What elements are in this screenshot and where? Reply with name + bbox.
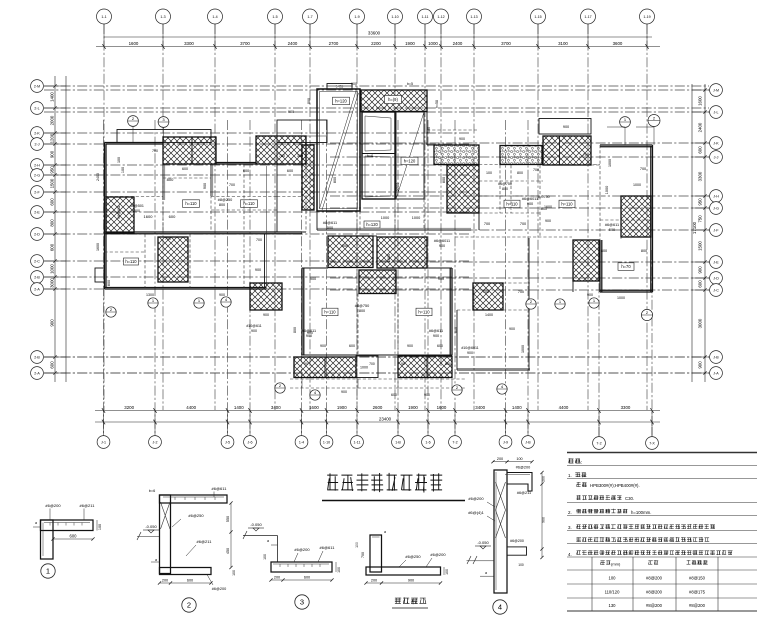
svg-text:800: 800 [307,98,311,104]
svg-text:100: 100 [445,569,449,575]
svg-text:a: a [267,539,269,543]
right unit outline [600,144,653,146]
svg-text:900: 900 [255,268,261,272]
svg-text:3000: 3000 [50,278,55,288]
svg-text:100: 100 [518,563,524,567]
horizontal axis grid lines [44,86,709,373]
svg-text:1000: 1000 [521,345,525,353]
svg-text:900: 900 [467,351,473,355]
svg-text:1-17: 1-17 [584,15,591,19]
svg-text:900: 900 [459,137,465,141]
svg-text:#6@250: #6@250 [188,513,204,518]
svg-text:800: 800 [293,327,297,333]
stair shaft [317,89,360,211]
svg-text:100: 100 [121,167,125,173]
svg-text:900: 900 [251,329,257,333]
svg-text:#6@750: #6@750 [355,304,369,308]
svg-text:900: 900 [698,266,703,274]
svg-text:#6@200: #6@200 [212,587,226,591]
svg-text:J-L: J-L [714,110,719,114]
svg-text:100: 100 [232,570,236,576]
svg-text:750: 750 [698,215,703,223]
left unit interior walls [162,144,164,232]
right unit section circles [620,117,631,128]
svg-text:J-K: J-K [713,141,719,145]
svg-text:700: 700 [583,153,589,157]
svg-text:h=120: h=120 [335,99,347,104]
svg-text:2: 2 [187,601,191,610]
svg-text:550: 550 [226,516,230,522]
hatch C core top [361,90,427,112]
svg-text:#8@250: #8@250 [218,198,232,202]
svg-text:2-B: 2-B [34,355,40,359]
svg-text:900: 900 [542,517,546,523]
svg-text:23400: 23400 [379,416,392,421]
svg-text:2-G: 2-G [34,173,40,177]
svg-text:1: 1 [46,567,50,576]
svg-text:#6@250: #6@250 [405,554,421,559]
svg-text:2400: 2400 [453,41,463,46]
svg-text:#8@175: #8@175 [689,590,706,595]
svg-text:700: 700 [256,238,262,242]
svg-text:J-H: J-H [713,194,719,198]
svg-text:600: 600 [187,579,193,583]
svg-text:300: 300 [297,154,303,158]
svg-text:900: 900 [509,327,515,331]
svg-text:1000: 1000 [50,264,55,274]
svg-text:200: 200 [162,579,168,583]
svg-text:3000: 3000 [698,318,703,328]
svg-text:#6@200: #6@200 [516,466,530,470]
svg-text:#6@611: #6@611 [302,329,316,333]
svg-text:100: 100 [486,171,492,175]
svg-text:7-2: 7-2 [452,440,457,444]
svg-text:3300: 3300 [621,405,631,410]
svg-text:700: 700 [229,183,235,187]
svg-text:110/120: 110/120 [605,590,620,595]
svg-text:2600: 2600 [373,405,383,410]
svg-text:900: 900 [310,277,316,281]
svg-text:33600: 33600 [368,31,381,36]
svg-text:600: 600 [391,393,397,397]
svg-text:950: 950 [50,166,55,174]
svg-text:HPB300#(#);HPB400#(#).: HPB300#(#);HPB400#(#). [590,483,640,488]
svg-text:900: 900 [587,293,593,297]
svg-text:100: 100 [609,576,617,581]
svg-text:J-6: J-6 [248,440,253,444]
svg-text:#6@211: #6@211 [517,491,531,495]
svg-text:h=58: h=58 [435,100,439,108]
svg-text:600: 600 [304,576,310,580]
svg-text:2-C: 2-C [34,259,40,263]
hatch S [250,283,282,310]
svg-text:700: 700 [279,154,285,158]
svg-text:1600: 1600 [309,405,319,410]
svg-text:2000: 2000 [50,115,55,125]
hatch B [256,136,306,164]
svg-text:500: 500 [134,209,140,213]
porch section circles [128,116,139,127]
svg-text:800: 800 [454,327,458,333]
svg-text:h=110: h=110 [185,201,197,206]
svg-text:600: 600 [50,361,55,369]
svg-text:100: 100 [117,157,121,163]
svg-text:100: 100 [337,567,341,573]
svg-text:900: 900 [288,110,294,114]
svg-text:1000: 1000 [617,296,625,300]
svg-text:h=120: h=120 [366,222,378,227]
svg-text:1000: 1000 [412,216,420,220]
svg-text:600: 600 [698,146,703,154]
svg-text:3200: 3200 [124,405,134,410]
detail 1 bubble [41,564,55,578]
svg-text:2400: 2400 [96,173,100,181]
svg-text:1600: 1600 [96,243,100,251]
svg-text:3.: 3. [568,525,572,530]
svg-text:800: 800 [219,203,225,207]
svg-text:1-11: 1-11 [354,440,361,444]
svg-text:#6@611: #6@611 [117,205,121,218]
svg-text:700: 700 [533,168,539,172]
corridor dashes [479,164,600,166]
svg-text:900: 900 [203,183,207,189]
svg-text:800: 800 [50,219,55,227]
svg-text:a: a [35,521,37,525]
svg-text:700: 700 [369,362,375,366]
top axis circles [97,9,112,24]
svg-text:800: 800 [107,280,111,286]
svg-text:#6@200: #6@200 [468,496,484,501]
svg-text:#6@611: #6@611 [605,223,619,227]
svg-text:#8@200: #8@200 [646,576,663,581]
right shaft [396,112,424,199]
svg-text:1-13: 1-13 [470,15,477,19]
svg-text:200: 200 [497,457,503,461]
svg-text:#6@611: #6@611 [212,486,228,491]
left axis circles [31,80,44,93]
svg-text:900: 900 [50,319,55,327]
svg-text:800: 800 [601,249,607,253]
svg-text:900: 900 [433,334,439,338]
svg-text:1-B: 1-B [395,440,401,444]
svg-text:1-7: 1-7 [307,15,312,19]
svg-text:J-B: J-B [713,355,719,359]
svg-text:4400: 4400 [186,405,196,410]
svg-text:800: 800 [502,187,508,191]
svg-text:3: 3 [300,598,304,607]
svg-text:h=110: h=110 [125,259,137,264]
svg-text:900: 900 [563,125,569,129]
svg-text:900: 900 [439,244,445,248]
svg-text:600: 600 [182,167,188,171]
svg-text:J-D: J-D [713,276,719,280]
svg-text:1000: 1000 [605,186,609,194]
labels left unit [183,200,200,208]
svg-text:900: 900 [320,344,326,348]
svg-text:2-L: 2-L [34,106,39,110]
svg-text:1-9: 1-9 [354,15,359,19]
svg-text:b=2B: b=2B [336,85,344,89]
svg-text:J-J: J-J [714,155,719,159]
hatch O [473,283,503,310]
svg-text::: : [581,460,582,466]
svg-text:1400: 1400 [234,405,244,410]
svg-text:500: 500 [609,228,615,232]
hatch G [106,197,134,233]
hatch A [163,137,216,164]
svg-text:J-1: J-1 [101,440,106,444]
svg-text:1-4: 1-4 [299,440,304,444]
svg-text:h=110: h=110 [324,310,336,315]
svg-text:2-K: 2-K [34,131,40,135]
hatch Q [573,240,599,281]
svg-text:1900: 1900 [337,405,347,410]
svg-text:200: 200 [542,476,546,482]
svg-text:h=120: h=120 [404,159,416,164]
svg-text:#6@750: #6@750 [498,182,512,186]
svg-text:#8@200: #8@200 [646,603,663,608]
right balcony [539,119,591,135]
svg-text:700: 700 [152,149,158,153]
svg-text:2-A: 2-A [34,371,40,375]
top dimension lines [96,24,660,49]
svg-text:7-X: 7-X [649,441,655,445]
svg-text:2-F: 2-F [34,190,40,194]
svg-text:800: 800 [517,171,523,175]
svg-text:800: 800 [442,177,446,183]
svg-text:1-5: 1-5 [272,15,277,19]
svg-text:#6@611: #6@611 [429,329,443,333]
svg-text:J-F: J-F [713,228,719,232]
svg-text:2-D: 2-D [34,232,40,236]
svg-text:2-M: 2-M [34,84,40,88]
svg-text:#10@611: #10@611 [246,324,261,328]
svg-text:1000: 1000 [381,216,389,220]
bottom hatch strips M,N [294,357,356,378]
svg-text:700: 700 [165,237,171,241]
svg-text:800: 800 [641,249,647,253]
svg-text:1900: 1900 [405,41,415,46]
svg-text:4: 4 [498,603,502,612]
svg-text:1-12: 1-12 [437,15,444,19]
svg-text:100: 100 [355,542,359,548]
svg-text:200: 200 [371,579,377,583]
right lower rooms [456,310,458,370]
svg-text:130: 130 [609,603,617,608]
pebble strip 1 [434,145,479,165]
svg-text:900: 900 [545,219,551,223]
svg-text:1600: 1600 [698,96,703,106]
svg-text:2400: 2400 [698,122,703,132]
svg-text:h=100mm.: h=100mm. [631,510,651,515]
svg-text:100: 100 [263,554,267,560]
svg-text:(mm): (mm) [611,562,621,567]
svg-text:h=(9): h=(9) [388,97,398,102]
core bottom band [316,211,318,230]
hatch P [543,136,591,165]
svg-text:1200: 1200 [50,133,55,143]
svg-text:C30.: C30. [625,496,634,501]
svg-text:J-9: J-9 [503,440,508,444]
svg-text:h=110: h=110 [506,202,518,207]
right axis circles [710,84,723,97]
svg-text:-0.050: -0.050 [145,524,157,529]
svg-text:2400: 2400 [288,41,298,46]
svg-text:1-19: 1-19 [643,15,650,19]
svg-text:100: 100 [98,524,102,530]
svg-text:#6@200: #6@200 [45,503,61,508]
svg-text:h=110: h=110 [243,201,255,206]
svg-text:2700: 2700 [396,183,400,191]
svg-text:h=110: h=110 [418,310,430,315]
svg-text:2-E: 2-E [34,210,40,214]
svg-text:1000: 1000 [608,159,612,167]
svg-text:-0.050: -0.050 [477,540,489,545]
svg-text:J-M: J-M [713,88,719,92]
svg-text:90: 90 [401,362,405,366]
svg-text:3600: 3600 [613,41,623,46]
svg-text:b=6: b=6 [149,489,155,493]
svg-text:900: 900 [263,313,269,317]
right dimension lines [692,84,710,382]
svg-text:J-E: J-E [713,260,719,264]
svg-text:600: 600 [50,198,55,206]
svg-text:700: 700 [361,552,365,558]
svg-text:#10@6011: #10@6011 [461,346,478,350]
svg-text:3700: 3700 [501,41,511,46]
svg-text:#8@150: #8@150 [689,576,706,581]
svg-text:700: 700 [483,290,489,294]
svg-text:100: 100 [516,457,522,461]
svg-text:1500: 1500 [50,178,55,188]
svg-text:900: 900 [424,393,430,397]
svg-text:#6@211: #6@211 [80,503,96,508]
svg-text:1-3: 1-3 [160,15,165,19]
svg-text:1600: 1600 [437,405,447,410]
svg-text:#6@501: #6@501 [130,204,144,208]
left unit porch [117,130,211,143]
svg-text:1-6: 1-6 [425,440,430,444]
svg-text:1600: 1600 [129,41,139,46]
svg-text:1000: 1000 [360,366,368,370]
svg-text:900: 900 [341,390,347,394]
svg-text:4400: 4400 [559,405,569,410]
svg-text:900: 900 [219,293,225,297]
svg-text:3100: 3100 [558,41,568,46]
svg-text:2.: 2. [568,510,572,515]
svg-text:1600: 1600 [544,205,552,209]
svg-text:3300: 3300 [698,171,703,181]
svg-text:h=110: h=110 [561,202,573,207]
svg-text:b=5: b=5 [407,82,413,86]
svg-text:a: a [155,558,157,562]
svg-text:#6@200: #6@200 [430,552,446,557]
hatch F [447,165,479,213]
svg-text:450: 450 [226,548,230,554]
hatch H [158,237,188,282]
bottom dimension lines [95,408,660,435]
svg-text:J-C: J-C [713,288,719,292]
svg-text:17100: 17100 [692,221,697,234]
svg-text:#6@211: #6@211 [197,539,213,544]
svg-text:90: 90 [304,362,308,366]
svg-text:J-5: J-5 [225,440,230,444]
lower wing hatches K,L [328,236,373,268]
svg-text:900: 900 [351,82,357,86]
svg-text:1500: 1500 [698,241,703,251]
svg-text:900: 900 [407,344,413,348]
svg-text:1000: 1000 [428,41,438,46]
svg-text:500: 500 [327,226,333,230]
svg-text:#8@611: #8@611 [323,221,337,225]
svg-text:2700: 2700 [329,41,339,46]
svg-text:800: 800 [333,177,337,183]
svg-text:#6@(4)1: #6@(4)1 [468,510,484,515]
svg-text:1400: 1400 [485,313,493,317]
svg-text:1400: 1400 [512,405,522,410]
svg-text:1-10: 1-10 [323,440,330,444]
svg-text:h=6: h=6 [367,154,373,158]
misc interior dashes upper [277,196,302,198]
center balcony [277,120,327,143]
svg-text:1600: 1600 [144,214,154,219]
svg-text:J-B: J-B [525,440,531,444]
svg-text:3400: 3400 [475,405,485,410]
svg-text:1.: 1. [568,473,572,478]
svg-text:600: 600 [169,214,176,219]
svg-text:600: 600 [437,344,443,348]
svg-text:3700: 3700 [240,41,250,46]
svg-text:#8@200: #8@200 [689,603,706,608]
svg-text:#6@200: #6@200 [510,539,524,543]
svg-text:700: 700 [640,167,646,171]
svg-text:2200: 2200 [371,41,381,46]
svg-text:700: 700 [520,222,526,226]
svg-text:900: 900 [50,150,55,158]
svg-text:500: 500 [342,244,348,248]
svg-text:a: a [384,530,386,534]
svg-text:1-10: 1-10 [391,15,398,19]
svg-text:900: 900 [527,202,533,206]
svg-text:1500: 1500 [387,254,391,262]
svg-text:600: 600 [698,280,703,288]
svg-text:a: a [485,571,487,575]
hatch I [359,270,396,294]
svg-text:J-G: J-G [713,206,719,210]
svg-text:900: 900 [306,334,312,338]
svg-text:2-J: 2-J [35,142,40,146]
svg-text:1300: 1300 [146,293,154,297]
svg-text:900: 900 [698,361,703,369]
svg-text:2-A: 2-A [34,287,40,291]
svg-text:600: 600 [50,243,55,251]
svg-text:800: 800 [359,309,365,313]
porch below wing [290,378,465,380]
svg-text:600: 600 [287,169,293,173]
bottom axis circles [97,436,110,449]
svg-text:#6@6011: #6@6011 [434,239,450,243]
pebble strip 2 [500,146,542,165]
svg-text:h=70: h=70 [621,264,631,269]
svg-text:#8@200: #8@200 [646,590,663,595]
svg-text:1000: 1000 [633,183,641,187]
svg-text:7-2: 7-2 [596,441,601,445]
svg-text:#6@611: #6@611 [320,545,336,550]
svg-text:1-4: 1-4 [212,15,217,19]
stair top cap [327,84,352,90]
svg-text:600: 600 [70,534,78,539]
svg-text:1400: 1400 [50,92,55,102]
